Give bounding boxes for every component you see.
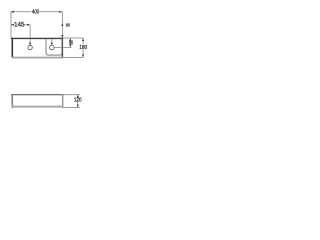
dimension 120 line: [77, 95, 79, 108]
400 right extension / 60 dim line: [61, 12, 63, 39]
front view rectangle left edge: [11, 94, 13, 108]
dimension 90 down arrow: [69, 44, 71, 47]
plan view rectangle right edge: [61, 38, 63, 58]
svg-text:400: 400: [32, 9, 39, 16]
svg-text:120: 120: [74, 97, 82, 104]
front view rectangle right edge: [62, 94, 64, 108]
dimension 180 down arrow: [82, 54, 84, 57]
front view rectangle bottom edge: [12, 106, 64, 108]
drain centre line: [51, 39, 53, 45]
dimension 120 label background: [74, 98, 81, 102]
dimension 180 line: [82, 38, 84, 57]
dimension 60 down arrow: [61, 35, 63, 38]
dimension 120 down arrow: [77, 105, 79, 108]
svg-text:90: 90: [69, 40, 74, 46]
plan view rectangle left edge: [11, 38, 13, 58]
dimension 145 line right segment: [24, 24, 31, 26]
dimension 120 up arrow: [77, 95, 79, 98]
dimension 180 label background: [80, 44, 86, 49]
front view rectangle top edge: [11, 94, 63, 96]
plan view rectangle top edge: [11, 37, 63, 39]
tap hole centre line: [29, 25, 31, 46]
svg-text:145: 145: [14, 22, 25, 29]
dimension 145 right arrow: [27, 24, 30, 26]
tap hole centre line arrow: [29, 43, 31, 46]
dimension 180 up arrow: [82, 38, 84, 41]
dimension 60 up arrow: [61, 23, 63, 26]
hole centre extension line right: [54, 46, 71, 48]
basin bowl outline: [46, 39, 62, 55]
dimension 90 line: [69, 38, 71, 47]
front top extension line: [63, 94, 80, 96]
svg-text:60: 60: [66, 22, 71, 28]
front bottom extension line: [63, 106, 80, 108]
drain centre line arrow: [51, 43, 53, 46]
400 left extension line: [10, 11, 12, 38]
drain circle: [50, 45, 55, 50]
dimension 400 line left segment: [11, 11, 32, 13]
tap hole circle: [28, 45, 32, 49]
dimension 90 label background: [69, 41, 74, 44]
dimension 400 left arrow: [11, 11, 14, 13]
back edge extension line right: [63, 37, 84, 39]
dimension 145 left arrow: [11, 24, 14, 26]
dimension 400 right arrow: [59, 11, 62, 13]
svg-text:180: 180: [79, 45, 87, 52]
plan view rectangle bottom edge: [12, 57, 64, 59]
dimension 400 line right segment: [39, 11, 62, 13]
dimension 145 line left segment: [11, 24, 13, 26]
plan bottom extension line right: [63, 57, 84, 59]
dimension 90 up arrow: [69, 38, 71, 41]
